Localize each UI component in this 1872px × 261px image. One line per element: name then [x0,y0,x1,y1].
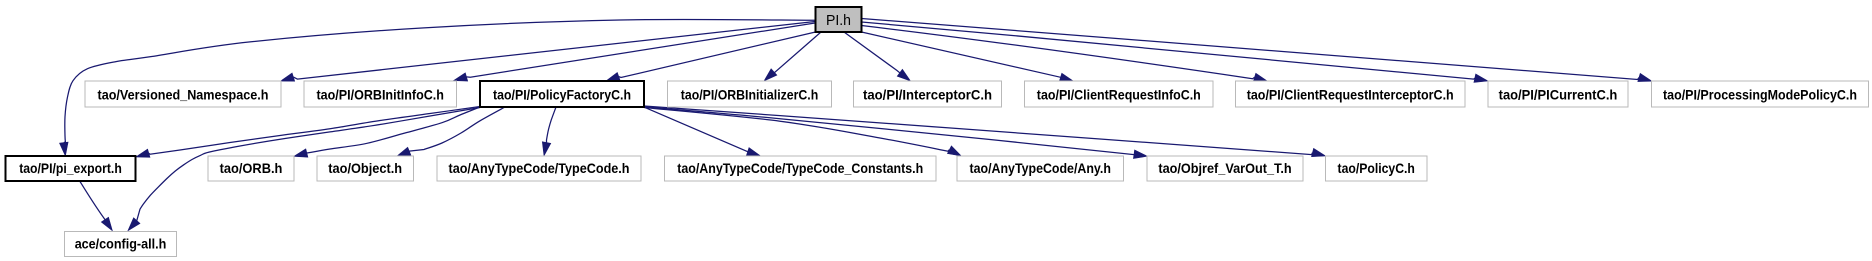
node tao/PI/InterceptorC.h [854,81,1002,107]
node tao/PI/PICurrentC.h [1488,81,1628,107]
svg-text:tao/AnyTypeCode/TypeCode.h: tao/AnyTypeCode/TypeCode.h [449,160,630,176]
node tao/PI/ClientRequestInfoC.h [1025,81,1214,107]
edge tao/PI/PolicyFactoryC.h->tao/ORB.h [294,107,480,157]
svg-text:tao/PI/ORBInitializerC.h: tao/PI/ORBInitializerC.h [681,86,819,102]
svg-text:tao/PI/pi_export.h: tao/PI/pi_export.h [19,160,122,176]
node tao/Objref_VarOut_T.h [1147,156,1303,181]
node tao/AnyTypeCode/TypeCode_Constants.h [665,156,937,181]
node tao/PI/ClientRequestInterceptorC.h [1236,81,1466,107]
node tao/PI/ProcessingModePolicyC.h [1652,81,1869,107]
svg-text:tao/PolicyC.h: tao/PolicyC.h [1338,160,1415,176]
edge PI.h->tao/PI/InterceptorC.h [844,32,911,81]
svg-text:tao/PI/ClientRequestInfoC.h: tao/PI/ClientRequestInfoC.h [1037,86,1201,102]
svg-text:tao/PI/ProcessingModePolicyC.h: tao/PI/ProcessingModePolicyC.h [1663,86,1857,102]
svg-text:tao/PI/PICurrentC.h: tao/PI/PICurrentC.h [1499,86,1618,102]
edge tao/PI/PolicyFactoryC.h->ace/config-all.h [128,108,480,231]
edge PI.h->tao/PI/PolicyFactoryC.h [606,32,816,81]
edge tao/PI/PolicyFactoryC.h->tao/AnyTypeCode/TypeCode_Constants.h [644,107,761,156]
edge tao/PI/PolicyFactoryC.h->tao/AnyTypeCode/TypeCode.h [542,107,556,156]
node ace/config-all.h [65,231,177,256]
svg-text:tao/PI/ClientRequestIntercepto: tao/PI/ClientRequestInterceptorC.h [1247,86,1454,102]
edge PI.h->tao/Versioned_Namespace.h [281,22,816,82]
edge PI.h->tao/PI/ORBInitInfoC.h [454,23,816,81]
edge PI.h->tao/PI/PICurrentC.h [862,22,1489,82]
node tao/PolicyC.h [1326,156,1428,181]
svg-text:tao/Object.h: tao/Object.h [328,160,402,176]
svg-text:PI.h: PI.h [826,12,851,29]
svg-text:tao/AnyTypeCode/Any.h: tao/AnyTypeCode/Any.h [970,160,1111,176]
node tao/ORB.h [208,156,294,181]
edge tao/PI/PolicyFactoryC.h->tao/Objref_VarOut_T.h [644,107,1147,159]
node tao/AnyTypeCode/Any.h [957,156,1124,181]
edge tao/PI/PolicyFactoryC.h->tao/PolicyC.h [644,106,1326,157]
svg-text:tao/PI/PolicyFactoryC.h: tao/PI/PolicyFactoryC.h [493,86,631,102]
svg-text:tao/AnyTypeCode/TypeCode_Const: tao/AnyTypeCode/TypeCode_Constants.h [677,160,923,176]
node tao/PI/pi_export.h [6,156,136,181]
edge PI.h->tao/PI/ProcessingModePolicyC.h [862,19,1653,82]
node tao/PI/PolicyFactoryC.h [480,81,644,107]
edge PI.h->tao/PI/ClientRequestInfoC.h [862,32,1074,81]
svg-text:tao/PI/ORBInitInfoC.h: tao/PI/ORBInitInfoC.h [316,86,444,102]
svg-text:tao/Versioned_Namespace.h: tao/Versioned_Namespace.h [98,86,269,102]
edge PI.h->tao/PI/pi_export.h [60,19,816,156]
svg-text:tao/PI/InterceptorC.h: tao/PI/InterceptorC.h [863,86,992,102]
svg-text:tao/ORB.h: tao/ORB.h [220,160,283,176]
svg-text:ace/config-all.h: ace/config-all.h [75,236,167,252]
edge tao/PI/pi_export.h->ace/config-all.h [80,182,112,231]
node tao/PI/ORBInitializerC.h [668,81,832,107]
node tao/Object.h [317,156,414,181]
edge tao/PI/PolicyFactoryC.h->tao/AnyTypeCode/Any.h [644,108,961,157]
node tao/Versioned_Namespace.h [85,81,281,107]
node tao/AnyTypeCode/TypeCode.h [437,156,641,181]
node tao/PI/ORBInitInfoC.h [304,81,457,107]
svg-text:tao/Objref_VarOut_T.h: tao/Objref_VarOut_T.h [1158,160,1291,176]
edge tao/PI/PolicyFactoryC.h->tao/Object.h [397,107,505,156]
node PI.h [816,7,862,32]
edge PI.h->tao/PI/ClientRequestInterceptorC.h [862,26,1268,82]
edge tao/PI/PolicyFactoryC.h->tao/PI/pi_export.h [136,107,480,158]
edge PI.h->tao/PI/ORBInitializerC.h [764,32,821,81]
